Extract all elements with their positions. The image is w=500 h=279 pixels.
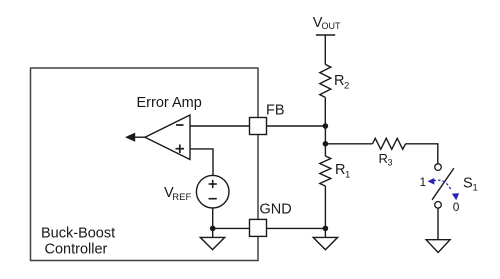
svg-text:1: 1 xyxy=(420,175,427,189)
wire: switch to ground xyxy=(437,208,439,240)
svg-text:2: 2 xyxy=(344,81,349,92)
node: FB junction xyxy=(323,123,329,129)
node: VREF ground junction xyxy=(210,226,216,232)
svg-text:R: R xyxy=(379,151,388,166)
S1 label xyxy=(463,176,478,194)
R3 label xyxy=(379,151,393,168)
wire: VREF to ground rail xyxy=(212,208,214,228)
VOUT terminal bar xyxy=(316,34,335,36)
switch position label 0 (blue) xyxy=(453,200,460,214)
pin FB xyxy=(250,103,285,135)
wire: GND pin to divider bottom xyxy=(267,227,326,229)
resistor R3 xyxy=(373,138,406,149)
svg-text:S: S xyxy=(463,176,473,192)
node: R3 branch junction xyxy=(323,141,329,147)
op-amp U1 (Error Amp) xyxy=(145,115,190,160)
svg-text:FB: FB xyxy=(266,103,285,119)
Buck-Boost Controller box xyxy=(31,68,259,261)
ground (VREF) xyxy=(200,228,224,249)
VOUT label xyxy=(313,15,341,31)
ground (switch) xyxy=(426,240,450,253)
switch throw arc (blue) xyxy=(428,178,460,200)
voltage source VREF xyxy=(196,175,229,208)
ground (divider) xyxy=(313,228,337,249)
resistor R1 xyxy=(320,156,331,186)
wire: op-amp noninverting input to VREF xyxy=(190,149,213,176)
wire: op-amp inverting input to FB pin xyxy=(190,125,250,127)
pin GND xyxy=(250,202,292,237)
wire: R3 to switch top contact xyxy=(406,144,438,164)
svg-text:R: R xyxy=(335,162,345,178)
op-amp output arrow xyxy=(125,133,145,142)
VREF label xyxy=(164,185,191,203)
wire: R3 branch horizontal xyxy=(325,143,372,145)
wire: VOUT to R2 xyxy=(324,35,326,64)
svg-text:Controller: Controller xyxy=(45,242,108,258)
wire: ground rail to GND pin xyxy=(213,227,249,229)
wire: R2 to FB node xyxy=(324,97,326,126)
Error Amp label xyxy=(137,95,202,111)
R1 label xyxy=(335,162,350,181)
svg-text:1: 1 xyxy=(345,170,350,181)
resistor R2 xyxy=(320,64,331,97)
svg-text:3: 3 xyxy=(388,158,393,168)
wire: R1 to ground rail xyxy=(324,186,326,228)
switch position label 1 (blue) xyxy=(420,175,427,189)
node: divider bottom junction xyxy=(323,226,329,232)
switch S1 xyxy=(432,164,454,208)
svg-text:R: R xyxy=(334,73,344,89)
svg-text:Error Amp: Error Amp xyxy=(137,95,202,111)
svg-text:OUT: OUT xyxy=(322,21,342,31)
svg-text:Buck-Boost: Buck-Boost xyxy=(41,226,115,242)
svg-text:1: 1 xyxy=(473,183,478,194)
R2 label xyxy=(334,73,349,92)
svg-text:REF: REF xyxy=(172,192,191,203)
svg-text:GND: GND xyxy=(260,202,292,218)
wire: FB node to R3 node xyxy=(324,126,326,144)
svg-text:0: 0 xyxy=(453,200,460,214)
wire: FB pin to divider node xyxy=(267,125,326,127)
wire: R3 node to R1 xyxy=(324,144,326,156)
Buck-Boost Controller label xyxy=(41,226,115,258)
